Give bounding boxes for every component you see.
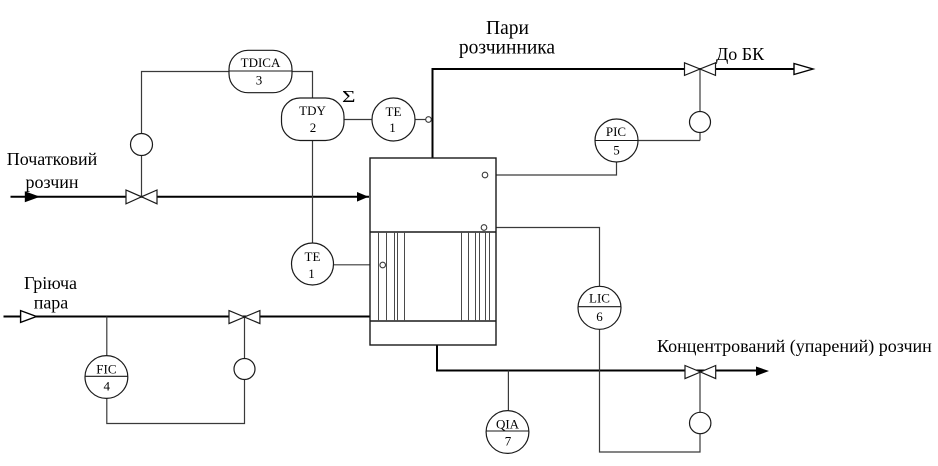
actuator circle concentrate valve: [690, 412, 711, 433]
wire signal TDICA3 to feed valve actuator: [142, 72, 230, 198]
svg-text:TE: TE: [386, 104, 402, 119]
tap circle vessel lower right (to LIC6): [481, 225, 487, 231]
svg-text:TDICA: TDICA: [241, 55, 281, 70]
valve on feed line: [126, 190, 157, 204]
svg-text:LIC: LIC: [589, 291, 610, 306]
actuator circle vapor valve: [690, 112, 711, 133]
svg-text:розчинника: розчинника: [459, 38, 556, 59]
wire concentrate drain line: [437, 345, 758, 371]
svg-text:5: 5: [613, 143, 620, 158]
wire vapor line (Пари розчинника / До БК): [433, 69, 796, 158]
svg-text:PIC: PIC: [606, 124, 626, 139]
svg-text:QIA: QIA: [496, 417, 520, 432]
wire signal drain line to QIA7: [507, 371, 509, 412]
arrow concentrate outlet (filled): [756, 367, 769, 376]
wire signal vessel tap to PIC5: [489, 163, 617, 176]
arrow steam inlet (open): [21, 311, 37, 323]
svg-text:Σ: Σ: [342, 88, 355, 106]
svg-text:TE: TE: [305, 249, 321, 264]
svg-text:розчин: розчин: [25, 172, 78, 192]
valve on steam line: [229, 311, 260, 324]
instrument PIC 5: [595, 119, 638, 162]
wire signal TDY2 to TE1 upper: [344, 119, 373, 121]
node sigma (summation label): [342, 88, 355, 106]
svg-text:6: 6: [596, 309, 603, 324]
wire feed line (Початковий розчин): [11, 196, 370, 198]
arrow vapor outlet to БК (open): [794, 64, 813, 75]
svg-text:TDY: TDY: [299, 103, 326, 118]
tap circle on vapor pipe: [426, 117, 432, 123]
instrument TDICA 3: [229, 50, 292, 92]
svg-text:7: 7: [505, 434, 512, 449]
wire steam line (Гріюча пара): [4, 316, 371, 318]
instrument QIA 7: [486, 411, 529, 454]
instrument FIC 4: [85, 356, 128, 399]
wire vapor valve stem through actuator: [699, 69, 701, 141]
actuator circle feed valve: [131, 134, 153, 156]
valve on vapor line: [685, 63, 716, 76]
wire signal TE1 upper to vapor pipe tap: [415, 119, 426, 121]
wire signal steam line to FIC4: [106, 317, 108, 357]
svg-text:пара: пара: [34, 293, 69, 313]
wire signal FIC4 to steam valve actuator: [107, 317, 245, 424]
svg-text:FIC: FIC: [96, 361, 116, 376]
svg-text:1: 1: [308, 266, 315, 281]
wire signal PIC5 to vapor valve actuator: [637, 140, 700, 142]
arrow feed into vessel (filled): [357, 192, 369, 202]
instrument TDY 2: [282, 98, 345, 141]
arrow feed inlet (filled): [25, 191, 40, 202]
svg-text:Пари: Пари: [486, 18, 529, 39]
svg-text:4: 4: [104, 379, 111, 394]
instrument TE 1 (lower): [292, 243, 334, 285]
svg-text:Гріюча: Гріюча: [24, 273, 77, 293]
actuator circle steam valve: [234, 359, 255, 380]
wire signal TDICA3 to TDY2: [292, 72, 313, 99]
svg-text:1: 1: [389, 120, 396, 135]
svg-text:Концентрований (упарений) розч: Концентрований (упарений) розчин: [657, 336, 932, 357]
vessel evaporator body: [370, 158, 496, 345]
svg-text:2: 2: [310, 120, 317, 135]
wire signal vessel tap to LIC6: [488, 228, 600, 288]
vessel heating tubes: [379, 232, 490, 321]
svg-text:До БК: До БК: [716, 44, 765, 64]
instrument LIC 6: [578, 286, 621, 329]
wire signal LIC6 to drain valve actuator: [600, 329, 701, 452]
svg-text:3: 3: [256, 73, 263, 88]
wire signal TDY2 down to TE1 lower: [312, 140, 314, 243]
svg-text:Початковий: Початковий: [7, 149, 98, 169]
instrument TE 1 (upper): [372, 98, 415, 141]
tap circle vessel left (to TE1 lower): [380, 262, 386, 268]
tap circle vessel upper right (to PIC5): [482, 172, 488, 178]
wire signal TE1 lower to vessel tap: [334, 264, 381, 266]
valve on concentrate line: [685, 366, 716, 379]
